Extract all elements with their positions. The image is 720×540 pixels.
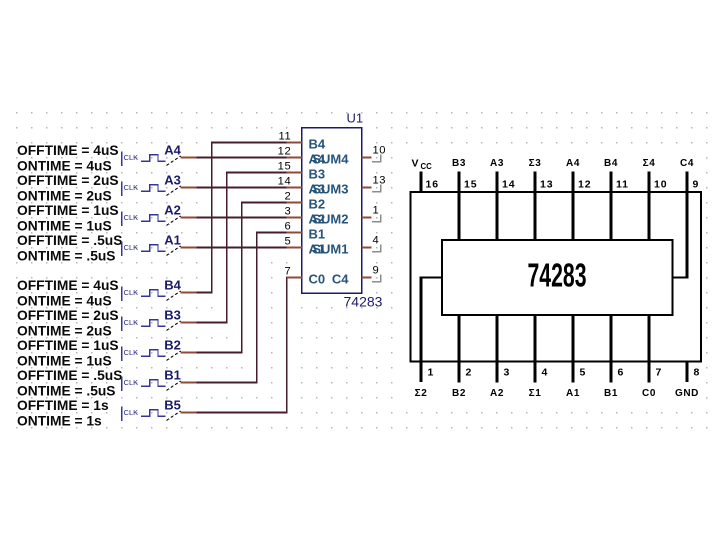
U1 pin 7 (C0) left stub and number — [284, 266, 325, 287]
datasheet pinout: DIP package outline — [411, 192, 702, 362]
svg-text:14: 14 — [502, 179, 515, 191]
svg-text:3: 3 — [504, 367, 510, 379]
svg-text:A2: A2 — [164, 203, 181, 218]
svg-text:12: 12 — [278, 146, 292, 158]
svg-text:CLK: CLK — [124, 183, 139, 192]
svg-text:B4: B4 — [309, 137, 326, 152]
svg-text:A3: A3 — [490, 158, 504, 169]
svg-text:15: 15 — [278, 161, 292, 173]
svg-text:B3: B3 — [452, 158, 466, 169]
datasheet pin 16 VCC — [412, 158, 439, 194]
svg-text:A4: A4 — [566, 158, 580, 169]
svg-text:9: 9 — [693, 179, 699, 191]
wire A3 to U1 pin 14 — [197, 187, 287, 189]
U1 pin 13 (SUM3) right stub, number and unconnected hook — [312, 175, 386, 197]
datasheet pin 13 &#931;3 top — [529, 158, 554, 240]
datasheet image white background — [396, 150, 705, 403]
datasheet pin 9 C4 with jog into chip body — [672, 158, 699, 279]
svg-text:B1: B1 — [604, 388, 618, 399]
svg-text:SUM2: SUM2 — [312, 212, 348, 227]
svg-text:U1: U1 — [347, 111, 364, 126]
svg-text:8: 8 — [694, 367, 700, 379]
svg-text:OFFTIME = 1uS: OFFTIME = 1uS — [17, 203, 119, 218]
clock source A4 (OFFTIME/ONTIME labels, CLK symbol) — [17, 143, 197, 174]
svg-text:Σ2: Σ2 — [415, 388, 428, 399]
svg-text:11: 11 — [278, 131, 291, 143]
svg-text:16: 16 — [426, 179, 439, 191]
svg-text:1: 1 — [428, 367, 434, 379]
svg-text:ONTIME = 4uS: ONTIME = 4uS — [17, 158, 112, 173]
svg-text:7: 7 — [284, 266, 291, 278]
datasheet pin 14 A3 top — [490, 158, 515, 240]
svg-text:ONTIME = 1uS: ONTIME = 1uS — [17, 218, 112, 233]
svg-text:ONTIME = .5uS: ONTIME = .5uS — [17, 383, 116, 398]
svg-text:5: 5 — [284, 236, 291, 248]
U1 pin 15 (B3) left stub and number — [278, 161, 325, 182]
svg-text:OFFTIME = 1s: OFFTIME = 1s — [17, 398, 109, 413]
svg-text:OFFTIME = .5uS: OFFTIME = .5uS — [17, 233, 122, 248]
datasheet pin 12 A4 top — [566, 158, 591, 240]
wire B3 to U1 pin 15 — [197, 172, 287, 324]
clock source B4 (OFFTIME/ONTIME labels, CLK symbol) — [17, 278, 197, 309]
svg-text:SUM3: SUM3 — [312, 182, 348, 197]
svg-text:ONTIME = 1s: ONTIME = 1s — [17, 413, 102, 428]
svg-text:SUM1: SUM1 — [312, 242, 348, 257]
svg-text:ONTIME = 2uS: ONTIME = 2uS — [17, 188, 112, 203]
svg-text:A1: A1 — [164, 233, 181, 248]
svg-text:C4: C4 — [332, 272, 349, 287]
svg-text:A1: A1 — [566, 388, 580, 399]
svg-text:1: 1 — [373, 205, 380, 217]
U1 pin 3 (A2) left stub and number — [284, 206, 325, 227]
svg-text:Σ4: Σ4 — [643, 158, 656, 169]
U1 pin 14 (A3) left stub and number — [278, 176, 325, 197]
datasheet pin 8 GND — [675, 361, 700, 399]
wire A4 to U1 pin 12 — [197, 157, 287, 159]
wire B5 to U1 pin 7 — [197, 277, 288, 414]
svg-text:B2: B2 — [309, 197, 326, 212]
svg-text:OFFTIME = .5uS: OFFTIME = .5uS — [17, 368, 122, 383]
clock source B5 (OFFTIME/ONTIME labels, CLK symbol) — [17, 398, 197, 429]
wire B2 to U1 pin 2 — [197, 202, 287, 354]
U1 pin 1 (SUM2) right stub, number and unconnected hook — [312, 205, 381, 227]
svg-text:OFFTIME = 4uS: OFFTIME = 4uS — [17, 278, 119, 293]
U1 pin 6 (B1) left stub and number — [284, 221, 325, 242]
svg-text:CLK: CLK — [124, 213, 139, 222]
svg-text:GND: GND — [675, 388, 699, 399]
datasheet pin 15 B3 top — [452, 158, 477, 240]
svg-text:ONTIME = 2uS: ONTIME = 2uS — [17, 323, 112, 338]
svg-text:B3: B3 — [309, 167, 326, 182]
svg-text:15: 15 — [464, 179, 477, 191]
svg-text:5: 5 — [580, 367, 586, 379]
datasheet pin 10 &#931;4 top — [643, 158, 668, 240]
svg-text:B4: B4 — [604, 158, 618, 169]
svg-text:13: 13 — [373, 175, 386, 187]
svg-text:A4: A4 — [164, 143, 181, 158]
datasheet pin 2 B2 bottom — [452, 315, 471, 399]
svg-text:3: 3 — [284, 206, 291, 218]
datasheet pin 6 B1 bottom — [604, 315, 623, 399]
datasheet pin 5 A1 bottom — [566, 315, 585, 399]
svg-text:ONTIME = .5uS: ONTIME = .5uS — [17, 248, 116, 263]
U1 pin 11 (B4) left stub and number — [278, 131, 325, 152]
svg-text:4: 4 — [542, 367, 548, 379]
svg-text:OFFTIME = 4uS: OFFTIME = 4uS — [17, 143, 119, 158]
datasheet pin 4 SIGMA1 bottom — [529, 315, 548, 399]
svg-text:74283: 74283 — [528, 257, 587, 294]
svg-text:74283: 74283 — [344, 293, 383, 309]
svg-text:CC: CC — [421, 162, 433, 171]
svg-text:A3: A3 — [164, 173, 181, 188]
svg-text:SUM4: SUM4 — [312, 152, 349, 167]
op IC U1 74283 adder symbol body — [302, 111, 383, 310]
wire B4 to U1 pin 11 — [197, 142, 287, 294]
wire A2 to U1 pin 3 — [197, 217, 287, 219]
svg-text:6: 6 — [284, 221, 291, 233]
svg-text:14: 14 — [278, 176, 292, 188]
svg-text:CLK: CLK — [124, 153, 139, 162]
svg-text:ONTIME = 4uS: ONTIME = 4uS — [17, 293, 112, 308]
svg-text:12: 12 — [578, 179, 591, 191]
svg-text:C4: C4 — [680, 158, 694, 169]
svg-text:B4: B4 — [164, 278, 181, 293]
U1 pin 2 (B2) left stub and number — [284, 191, 325, 212]
wire B1 to U1 pin 6 — [197, 232, 287, 384]
svg-text:OFFTIME = 1uS: OFFTIME = 1uS — [17, 338, 119, 353]
svg-text:4: 4 — [373, 235, 380, 247]
svg-text:Σ3: Σ3 — [529, 158, 542, 169]
svg-text:OFFTIME = 2uS: OFFTIME = 2uS — [17, 173, 119, 188]
svg-text:CLK: CLK — [124, 408, 139, 417]
datasheet pinout: 74283 chip body — [442, 240, 673, 315]
svg-text:CLK: CLK — [124, 243, 139, 252]
U1 pin 9 (C4) right stub, number and unconnected hook — [332, 265, 381, 287]
clock source B1 (OFFTIME/ONTIME labels, CLK symbol) — [17, 368, 197, 399]
svg-text:10: 10 — [373, 145, 386, 157]
svg-text:CLK: CLK — [124, 378, 139, 387]
clock source B3 (OFFTIME/ONTIME labels, CLK symbol) — [17, 308, 197, 339]
svg-text:A2: A2 — [490, 388, 504, 399]
svg-text:CLK: CLK — [124, 288, 139, 297]
U1 pin 12 (A4) left stub and number — [278, 146, 326, 167]
svg-text:B1: B1 — [309, 227, 326, 242]
svg-text:OFFTIME = 2uS: OFFTIME = 2uS — [17, 308, 119, 323]
svg-text:13: 13 — [540, 179, 553, 191]
svg-text:10: 10 — [654, 179, 667, 191]
clock source A2 (OFFTIME/ONTIME labels, CLK symbol) — [17, 203, 197, 234]
svg-text:ONTIME = 1uS: ONTIME = 1uS — [17, 353, 112, 368]
svg-text:9: 9 — [373, 265, 380, 277]
svg-text:B1: B1 — [164, 368, 181, 383]
svg-text:B2: B2 — [164, 338, 181, 353]
svg-text:7: 7 — [656, 367, 662, 379]
svg-text:CLK: CLK — [124, 318, 139, 327]
svg-text:CLK: CLK — [124, 348, 139, 357]
svg-text:B2: B2 — [452, 388, 466, 399]
wire A1 to U1 pin 5 — [197, 247, 287, 249]
svg-text:11: 11 — [616, 179, 629, 191]
svg-text:C0: C0 — [309, 272, 326, 287]
clock source A1 (OFFTIME/ONTIME labels, CLK symbol) — [17, 233, 197, 264]
U1 pin 5 (A1) left stub and number — [284, 236, 325, 257]
clock source B2 (OFFTIME/ONTIME labels, CLK symbol) — [17, 338, 197, 369]
svg-text:B3: B3 — [164, 308, 181, 323]
svg-text:C0: C0 — [642, 388, 656, 399]
clock source A3 (OFFTIME/ONTIME labels, CLK symbol) — [17, 173, 197, 204]
svg-text:V: V — [412, 158, 419, 170]
datasheet pin 3 A2 bottom — [490, 315, 509, 399]
svg-text:2: 2 — [284, 191, 291, 203]
datasheet pin 11 B4 top — [604, 158, 629, 240]
datasheet pin 7 C0 bottom — [642, 315, 661, 399]
U1 pin 4 (SUM1) right stub, number and unconnected hook — [312, 235, 381, 257]
svg-text:B5: B5 — [164, 398, 181, 413]
svg-text:2: 2 — [466, 367, 472, 379]
datasheet pin 1 SIGMA2 with jog into chip body — [415, 277, 443, 400]
svg-text:6: 6 — [618, 367, 624, 379]
svg-text:Σ1: Σ1 — [529, 388, 542, 399]
U1 pin 10 (SUM4) right stub, number and unconnected hook — [312, 145, 386, 167]
